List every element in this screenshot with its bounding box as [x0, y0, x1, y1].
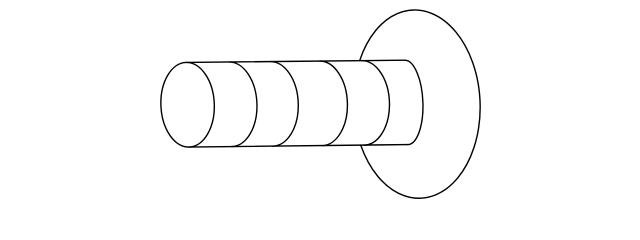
- thread arc 1: [229, 62, 257, 147]
- thread arc 3: [320, 61, 347, 146]
- thread arc 4: [362, 61, 390, 146]
- shank top silhouette line: [187, 60, 405, 62]
- thread arc 2: [271, 62, 299, 147]
- head flange ellipse (outer rim of screw head): [360, 10, 481, 198]
- head collar rounded cap arc: [405, 60, 423, 144]
- shank bottom silhouette line: [189, 145, 408, 148]
- screw tip end face ellipse: [159, 61, 216, 148]
